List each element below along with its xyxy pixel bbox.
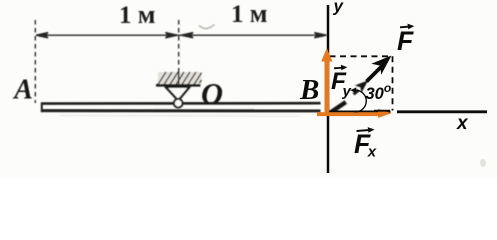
- dimension line A to B: [36, 33, 327, 38]
- support center tick: [178, 72, 180, 86]
- overlay crisp group: [299, 0, 487, 173]
- force Fx arrow (orange): [317, 109, 392, 118]
- force F arrowhead: [371, 56, 391, 75]
- angle arc 30deg: [354, 90, 366, 112]
- x axis over arrowhead: [374, 110, 390, 112]
- y axis: [327, 5, 330, 173]
- pin circle: [174, 99, 183, 108]
- angle arc arrowhead: [350, 87, 356, 93]
- x axis: [329, 111, 391, 114]
- dashed box right: [392, 56, 394, 110]
- svg-text:A: A: [12, 75, 33, 106]
- svg-text:1 м: 1 м: [231, 0, 267, 28]
- speckle artifact: [480, 159, 486, 167]
- force F scanned mid segment: [354, 90, 359, 94]
- svg-text:y: y: [342, 83, 352, 100]
- svg-text:30o: 30o: [366, 81, 392, 103]
- svg-text:B: B: [299, 74, 319, 106]
- svg-text:O: O: [201, 77, 223, 111]
- svg-text:y: y: [333, 0, 345, 16]
- extension dashed line at O: [178, 20, 180, 73]
- beam (lever rod): [42, 102, 321, 112]
- support top line: [156, 84, 201, 87]
- label F vector: [397, 24, 414, 56]
- force F scanned arrowhead: [355, 80, 368, 93]
- extension dashed line at A: [34, 20, 36, 103]
- pivot triangle: [166, 87, 190, 101]
- dashed box top: [330, 55, 393, 57]
- label Fx vector: [354, 127, 377, 160]
- svg-text:x: x: [367, 144, 377, 161]
- beam shadow: [60, 115, 300, 118]
- force Fy arrow (orange): [321, 48, 332, 116]
- force F arrow line: [367, 65, 384, 82]
- svg-text:x: x: [456, 113, 469, 134]
- force F scanned shaft segment: [330, 102, 346, 113]
- label Fy vector: [331, 65, 352, 100]
- svg-text:1 м: 1 м: [119, 0, 155, 29]
- smudge arc artifact: [199, 25, 215, 29]
- scanned-layer group: [12, 0, 368, 116]
- support hatching: [158, 72, 202, 85]
- svg-text:F: F: [397, 26, 414, 56]
